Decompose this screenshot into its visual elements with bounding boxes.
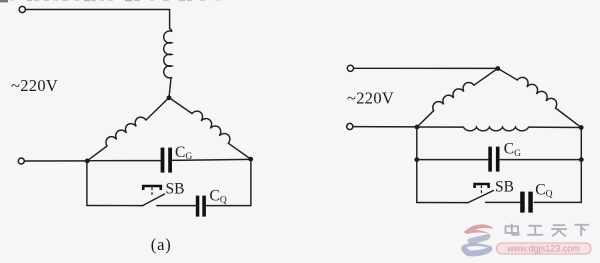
node: right vertex dot	[248, 157, 253, 162]
junction dot (star point)	[167, 95, 172, 100]
wire: right vertical drop	[250, 159, 252, 206]
wire: junction to right winding start	[169, 98, 192, 114]
terminal R1 (top)	[347, 65, 353, 71]
wire: top feed from terminal L1 to corner	[26, 10, 170, 29]
wire: terminal R2 to left vertex	[353, 126, 417, 128]
pushbutton SB1 cap (T-bar)	[143, 186, 161, 197]
terminal R2 (bottom)	[347, 123, 353, 129]
watermark logo swoosh	[461, 224, 493, 256]
wire: terminal R1 to apex	[354, 67, 498, 69]
wire: left vertical drop	[86, 161, 88, 206]
capacitor CG plates (right diagram)	[488, 147, 499, 172]
wire: apex to right winding	[498, 68, 518, 80]
wire: left vertical drop (right diagram)	[416, 127, 418, 203]
wire: bottom rail middle segment (right diagram)	[486, 201, 521, 203]
wire: CG row left segment (right diagram)	[417, 159, 488, 161]
node: CG row left dot (right diagram)	[414, 157, 419, 162]
wire: bottom side left segment	[417, 126, 464, 128]
wire: left vertex to left winding	[417, 111, 434, 127]
switch SB1 moving contact	[143, 194, 165, 206]
cropped text remnants along top edge	[0, 0, 221, 2]
wire: terminal L2 to left vertex	[24, 160, 87, 162]
terminal L1 (top-left)	[19, 6, 25, 12]
wire: capacitor CG to right vertex	[172, 159, 251, 160]
node: CG row right dot (right diagram)	[579, 157, 584, 162]
wire: right vertical drop (right diagram)	[580, 128, 582, 203]
winding W6 (bottom horizontal)	[464, 127, 529, 131]
char 电	[506, 224, 519, 235]
capacitor CQ plates (right diagram)	[520, 192, 533, 213]
svg-text:SB: SB	[495, 179, 514, 196]
node: left vertex dot	[85, 159, 90, 164]
winding W3 (right slanted)	[192, 111, 230, 143]
svg-text:www.dgjs123.com: www.dgjs123.com	[506, 243, 580, 253]
terminal L2 (bottom-left)	[18, 158, 24, 164]
wire: left vertex to capacitor CG	[87, 160, 160, 162]
capacitor CQ plates (left diagram)	[196, 196, 206, 217]
char 天	[551, 225, 567, 236]
node: left vertex dot (right diagram)	[415, 125, 420, 130]
wire: bottom rail middle segment	[157, 205, 196, 207]
svg-text:~220V: ~220V	[347, 89, 394, 108]
wire: right winding to right vertex	[556, 108, 582, 128]
winding W1 (vertical, main)	[164, 29, 172, 78]
winding W5 (right side, right diagram)	[517, 77, 556, 108]
pushbutton SB2 cap (T-bar)	[475, 184, 489, 195]
winding W2 (left slanted)	[106, 117, 146, 146]
node: right vertex dot (right diagram)	[579, 125, 584, 130]
svg-text:~220V: ~220V	[11, 76, 58, 95]
wire: junction to left winding start	[146, 98, 169, 120]
wire: bottom rail left segment (right diagram)	[417, 202, 468, 204]
wire: right winding to right vertex	[228, 143, 250, 159]
watermark text 电工天下 (drawn strokes)	[506, 224, 590, 237]
wire: bottom rail right segment	[206, 205, 251, 207]
wire: bottom rail left segment	[87, 205, 143, 207]
svg-text:SB: SB	[166, 180, 185, 197]
watermark url pill	[497, 243, 592, 254]
wire: CG row right segment (right diagram)	[500, 159, 582, 161]
svg-text:(a): (a)	[151, 235, 172, 254]
wire: winding W1 bottom to center junction	[169, 78, 171, 97]
wire: bottom side right segment	[529, 126, 582, 128]
node: apex dot (right diagram)	[495, 66, 500, 71]
winding W4 (left side, right diagram)	[433, 82, 474, 110]
char 下	[575, 225, 590, 236]
switch SB2 moving contact	[468, 191, 493, 203]
wire: left winding to left vertex	[87, 146, 107, 161]
wire: left winding to apex	[474, 68, 498, 85]
capacitor CG plates (left diagram)	[161, 148, 172, 173]
char 工	[527, 226, 543, 235]
wire: bottom rail right segment (right diagram)	[534, 201, 581, 203]
